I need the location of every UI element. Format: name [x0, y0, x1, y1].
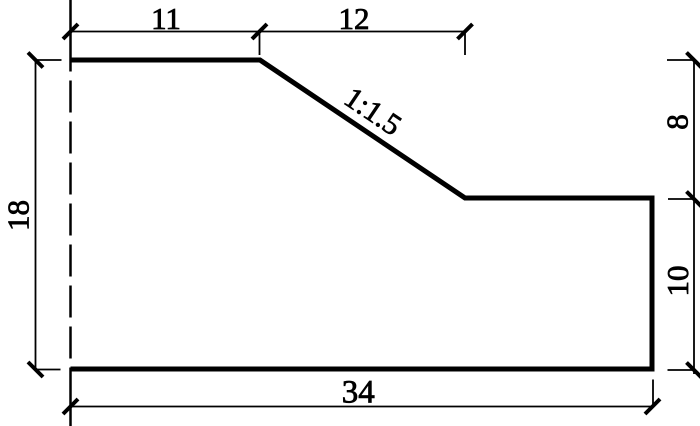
dimension line bottom (34) [71, 406, 653, 408]
tick top right [458, 24, 473, 39]
extension line left bottom [36, 369, 61, 371]
tick right top [687, 53, 700, 68]
dimension line right (8 and 10) [693, 58, 695, 374]
centerline axis lower solid part / extension line of 34 [69, 368, 72, 426]
extension line left top [36, 59, 62, 61]
extension line right top [667, 59, 695, 61]
centerline axis dashed [69, 81, 72, 361]
extension stub bottom right [652, 380, 654, 408]
extension stub at slope bottom projection [464, 32, 466, 56]
tick left bottom [28, 362, 43, 377]
svg-text:11: 11 [151, 1, 181, 36]
svg-text:34: 34 [342, 375, 375, 411]
tick bottom left [63, 399, 78, 414]
svg-text:10: 10 [660, 266, 695, 297]
svg-text:8: 8 [660, 114, 695, 130]
svg-text:18: 18 [0, 200, 35, 231]
extension stub at slope top [259, 32, 261, 56]
tick top middle [252, 24, 267, 39]
tick right middle [687, 192, 700, 207]
dimension line top (11 and 12) [71, 31, 466, 33]
centerline axis solid upper part / extension line [69, 0, 72, 72]
tick left top [28, 53, 43, 68]
tick bottom right [645, 399, 660, 414]
svg-text:12: 12 [339, 1, 370, 36]
extension line right bottom [668, 369, 695, 371]
extension line right middle [668, 198, 694, 200]
outline (embankment cross-section, thick) [71, 60, 653, 369]
tick right bottom [687, 363, 700, 378]
dimension line left (18) [35, 60, 37, 370]
tick top left [63, 24, 78, 39]
